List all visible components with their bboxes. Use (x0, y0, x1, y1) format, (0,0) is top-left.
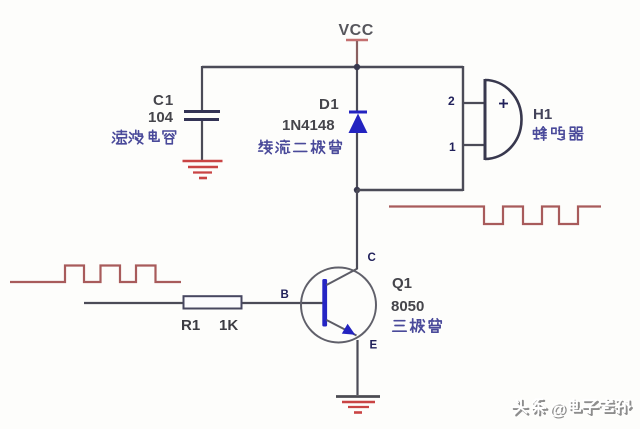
svg-text:VCC: VCC (339, 22, 374, 39)
svg-text:H1: H1 (533, 106, 552, 123)
svg-text:D1: D1 (319, 96, 339, 113)
svg-text:104: 104 (148, 109, 174, 126)
svg-text:@: @ (549, 399, 566, 418)
svg-text:B: B (281, 289, 289, 301)
svg-text:8050: 8050 (391, 298, 424, 315)
svg-text:2: 2 (448, 94, 455, 108)
svg-text:C: C (368, 252, 376, 264)
svg-text:C1: C1 (153, 92, 174, 109)
svg-text:1: 1 (449, 140, 456, 154)
svg-text:1N4148: 1N4148 (282, 117, 335, 134)
svg-text:E: E (370, 340, 378, 352)
svg-text:1K: 1K (219, 317, 238, 334)
svg-text:R1: R1 (181, 317, 200, 334)
svg-text:Q1: Q1 (392, 275, 412, 292)
